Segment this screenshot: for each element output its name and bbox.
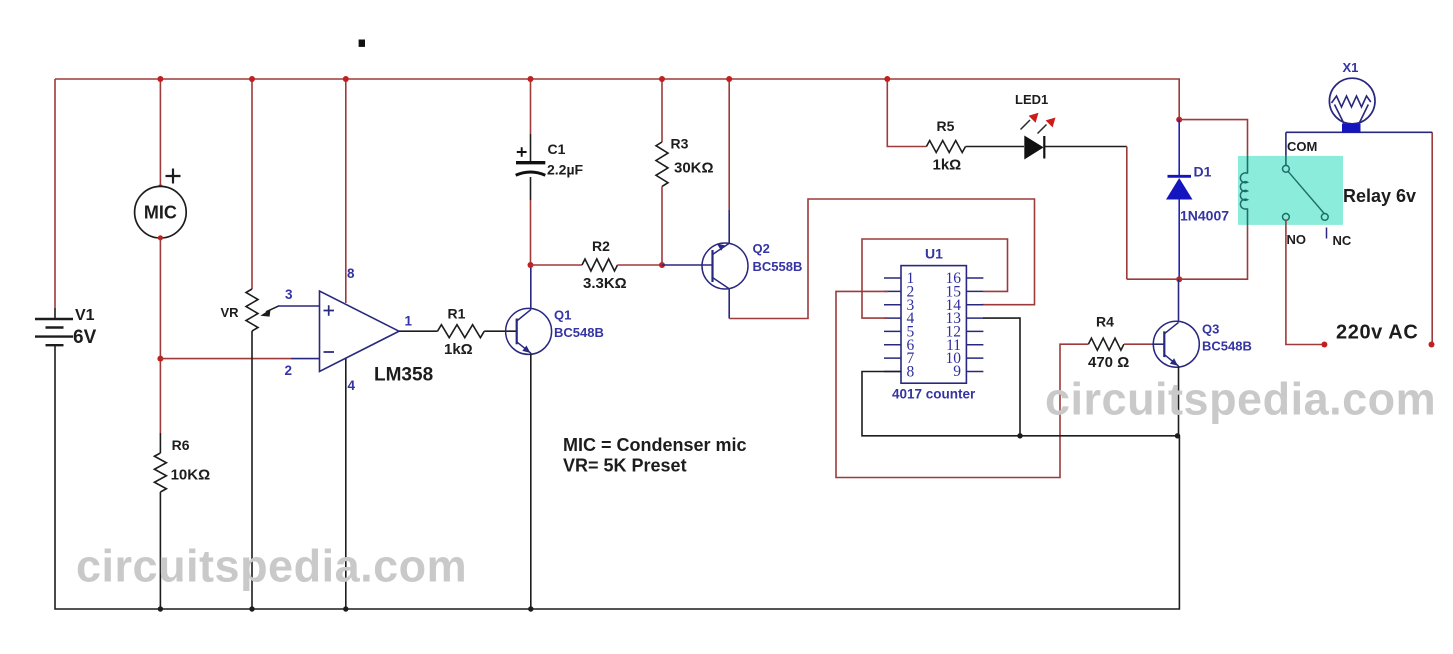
node: Q3 emitter/ground bus [1175,433,1180,438]
MIC plus mark [166,169,181,184]
resistor R6 [154,453,166,492]
note: small black square [359,40,365,47]
transistor Q3 BC548B [1153,321,1252,367]
wire: top +6V rail [55,79,1179,120]
wire: Q2 collector down [728,289,730,319]
svg-text:BC548B: BC548B [554,325,604,340]
wire: U1 pin13 to ground bus [983,318,1020,436]
VR wiper arrow [266,306,279,312]
svg-text:COM: COM [1287,139,1317,154]
lamp X1 [1329,60,1375,133]
node: 220v right terminal [1429,342,1435,348]
wire: C1 bottom lead [530,177,532,200]
node: 220v left terminal [1321,342,1327,348]
svg-text:30KΩ: 30KΩ [674,160,714,177]
svg-text:LED1: LED1 [1015,92,1048,107]
node: D1/relay/Q3 collector junction [1176,276,1182,282]
node: junction to op-amp inverting input [157,356,163,362]
wire: R3 branch red from rail [661,79,663,142]
wire: U1 pin8 ground bus [862,372,1179,436]
wire: U1 pin4 to pin15 (red loop) [862,239,1008,318]
wire: VR bottom black [251,331,253,609]
svg-text:4017 counter: 4017 counter [892,387,976,402]
svg-text:C1: C1 [548,141,566,157]
svg-text:X1: X1 [1343,60,1359,75]
wire: red to op-amp pin2 [160,358,291,360]
svg-text:10KΩ: 10KΩ [171,467,211,484]
svg-text:Q3: Q3 [1202,322,1219,337]
transistor Q1 BC548B [506,308,604,355]
op-amp U LM358 [320,291,400,372]
wire: R4 to Q3 base [1124,343,1152,345]
svg-text:2: 2 [285,363,293,378]
svg-text:Relay 6v: Relay 6v [1343,186,1416,206]
svg-text:U1: U1 [925,246,943,262]
svg-text:R5: R5 [937,118,955,134]
svg-text:1N4007: 1N4007 [1180,208,1229,224]
node: pin13/ground bus [1017,433,1022,438]
wire: MIC branch red from top rail [159,79,161,186]
wire: node to R2 [531,264,583,266]
relay body [1238,156,1343,225]
wire: Q2 collector to U1 pin14 (clock) [729,199,1034,319]
IC U1 4017 [884,246,983,402]
resistor R5 [926,141,965,153]
svg-text:1kΩ: 1kΩ [444,341,473,358]
capacitor C1 [516,161,545,164]
wire: R2 to R3 node [618,264,663,266]
svg-text:R4: R4 [1096,314,1114,330]
battery V1 [35,319,73,345]
node: VR ground [249,606,254,611]
wire: op-amp pin4 to ground [345,358,347,609]
wire: C1 top lead black [530,134,532,161]
svg-text:R2: R2 [592,238,610,254]
node: top rail R5 [884,76,890,82]
wire: COM up to lamp line [1285,132,1287,156]
svg-text:V1: V1 [75,307,95,324]
node: C1/R2/Q1 junction [528,262,534,268]
svg-text:Q2: Q2 [753,241,770,256]
svg-text:Q1: Q1 [554,308,571,323]
svg-text:3.3KΩ: 3.3KΩ [583,275,627,292]
svg-text:8: 8 [907,364,915,381]
relay NC contact [1321,214,1328,221]
resistor R3 [656,142,668,186]
svg-text:BC548B: BC548B [1202,339,1252,354]
wire: lamp bottom line [1286,131,1432,133]
wire: R1 to Q1 base [484,330,516,332]
wire: C1 branch red from rail [530,79,532,134]
wire: left rail red from rail to battery top [54,79,56,308]
svg-text:circuitspedia.com: circuitspedia.com [76,541,467,592]
svg-text:BC558B: BC558B [753,259,803,274]
svg-text:3: 3 [285,287,293,302]
svg-text:LM358: LM358 [374,365,433,386]
svg-text:1kΩ: 1kΩ [933,157,962,174]
wire: R3 bottom to node [661,186,663,265]
svg-text:MIC = Condenser mic: MIC = Condenser mic [563,435,747,455]
potentiometer VR [246,289,258,331]
svg-text:8: 8 [347,266,355,281]
relay coil leads [1247,156,1249,225]
svg-text:VR: VR [221,305,240,320]
relay blade [1288,171,1324,213]
wire: left rail black, bottom rail [55,345,1179,609]
wire: Q3 emitter to ground bus [1178,366,1180,436]
svg-text:2.2µF: 2.2µF [547,162,584,178]
relay COM contact [1283,165,1290,172]
svg-text:R3: R3 [671,136,689,152]
diode D1 1N4007 [1166,120,1229,280]
svg-text:MIC: MIC [144,203,177,223]
relay NO contact [1283,214,1290,221]
wire: NO to 220v terminal [1286,220,1325,345]
node: top rail C1 [528,76,534,82]
node: top rail MIC [157,76,163,82]
NC stub [1326,228,1328,239]
wire: battery top black lead [54,308,56,318]
wire: U1 pin2 to R4 (red loop) [836,291,1088,477]
svg-text:D1: D1 [1194,164,1212,180]
wire: LED cathode to corner [1044,146,1127,148]
transistor Q2 BC558B [702,241,802,289]
node: rail corner junction above D1 [1176,117,1182,123]
svg-text:4: 4 [348,378,356,393]
svg-text:1: 1 [405,314,413,329]
wire: R5 branch red from rail [887,79,926,147]
node: Q1 emitter ground [528,606,533,611]
wire: R6 top lead [159,433,161,453]
svg-text:R1: R1 [448,306,466,322]
svg-text:VR= 5K Preset: VR= 5K Preset [563,456,687,476]
wire: corner down to relay/D1 node [1126,147,1128,280]
wire: node to relay coil top [1179,120,1247,156]
wire: VR branch red [251,79,253,289]
node: pin4 ground [343,606,348,611]
wire: wiper to op-amp pin3 [278,305,320,307]
node: MIC - terminal [158,235,163,240]
microphone MIC [135,186,187,238]
wire: R5 to LED [966,146,1024,148]
svg-text:NC: NC [1333,233,1352,248]
wire: op-amp output to R1 [399,330,438,332]
LED LED1 [1015,92,1056,160]
resistor R2 [582,259,618,271]
wire: Q3 collector to D1 node [1178,279,1180,322]
svg-text:470 Ω: 470 Ω [1088,354,1129,371]
svg-text:220v AC: 220v AC [1336,322,1418,344]
wire: lamp to right 220v terminal [1431,132,1433,344]
wire: node to Q2 base [662,264,713,266]
resistor R1 [438,325,485,338]
node: MIC + terminal [158,184,163,189]
node: top rail pin8 [343,76,349,82]
wire: Q2 emitter to rail [728,210,730,243]
wire: op-amp pin8 supply red [345,79,347,303]
wire: MIC to R6 red [159,238,161,433]
wire: R6 bottom lead [159,492,161,609]
node: top rail VR [249,76,255,82]
wire: Q1 collector up to C1/R2 node [530,265,532,309]
relay coil [1240,173,1247,209]
svg-text:NO: NO [1287,232,1307,247]
svg-text:6V: 6V [73,327,97,348]
resistor R4 [1088,338,1124,350]
wire: relay coil bottom to junction [1127,225,1248,279]
node: top rail R3 [659,76,665,82]
wire: Q1 emitter to ground [530,353,532,609]
wire: navy to op-amp pin2 [291,358,320,360]
node: R2/R3/Q2 base junction [659,262,665,268]
node: R6 to ground rail [158,606,163,611]
svg-text:9: 9 [953,363,961,380]
node: top rail Q2 [726,76,732,82]
svg-text:R6: R6 [172,437,190,453]
svg-text:circuitspedia.com: circuitspedia.com [1045,374,1436,425]
